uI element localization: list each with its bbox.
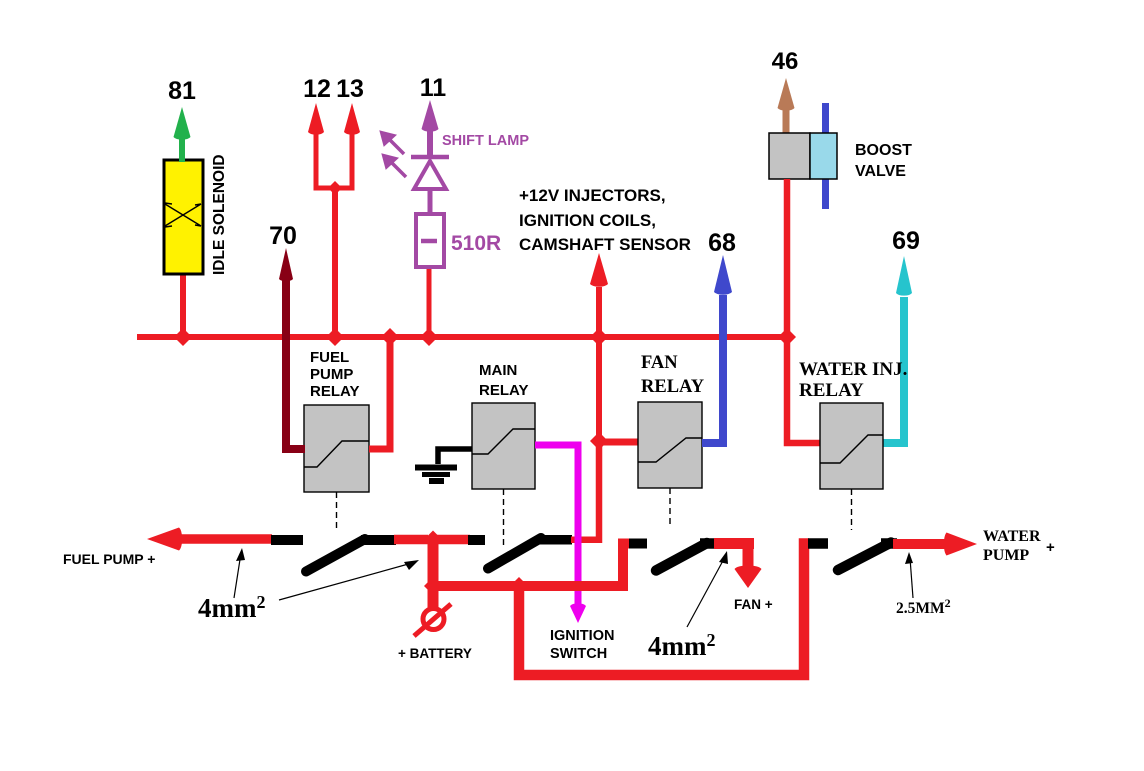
label IGNITION SWITCH — [550, 628, 614, 662]
ground symbol — [415, 468, 457, 482]
switch S1 movable arm (fuel pump) — [306, 539, 365, 572]
terminal arrow 70 (dark red) — [279, 248, 293, 281]
svg-text:12: 12 — [303, 75, 331, 103]
svg-text:11: 11 — [420, 74, 447, 102]
terminal arrow +12V (red) — [590, 253, 608, 287]
svg-text:WATER INJ.: WATER INJ. — [799, 359, 907, 380]
label +12V INJECTORS — [519, 186, 691, 254]
svg-text:FAN +: FAN + — [734, 597, 773, 612]
relay K1 contact symbol — [304, 441, 369, 467]
node: fork junction — [328, 181, 342, 195]
relay K2 main — [472, 403, 535, 489]
svg-text:PUMP: PUMP — [983, 547, 1029, 564]
switch S1 pivot cap — [361, 535, 396, 545]
svg-text:RELAY: RELAY — [799, 380, 864, 401]
terminal arrow 11 (purple) — [422, 100, 439, 158]
svg-text:RELAY: RELAY — [479, 382, 528, 399]
switch S3 movable arm (fan) — [656, 543, 707, 571]
svg-text:69: 69 — [892, 227, 920, 255]
node: tee to lower run — [510, 577, 528, 595]
relay K3 fan — [638, 402, 702, 488]
svg-text:RELAY: RELAY — [310, 383, 359, 400]
wire: fork feed 12/13 — [314, 134, 355, 188]
svg-text:+: + — [1046, 539, 1055, 556]
annotation arrow to battery riser — [279, 560, 419, 600]
wire: water pump + output lead — [893, 539, 950, 549]
label BOOST VALVE — [855, 142, 912, 180]
relay K4 contact symbol — [820, 435, 883, 463]
relay K1 fuel pump — [304, 405, 369, 492]
relay K2 contact symbol — [472, 429, 535, 454]
terminal arrow FUEL PUMP + (red, left) — [147, 528, 182, 551]
svg-text:4mm2: 4mm2 — [648, 630, 715, 661]
terminal arrow ignition switch (magenta, down) — [570, 603, 586, 623]
label FUEL PUMP RELAY — [310, 349, 359, 400]
svg-text:+12V INJECTORS,: +12V INJECTORS, — [519, 186, 666, 205]
node: bus junction fuel pump relay — [381, 328, 399, 346]
wire: fan + output lead — [714, 540, 754, 568]
relay K3 actuating link (dashed) — [669, 488, 671, 527]
svg-text:BOOST: BOOST — [855, 142, 912, 159]
svg-text:PUMP: PUMP — [310, 366, 353, 383]
wire: boost valve feed / water relay coil feed — [787, 179, 820, 443]
wire: battery feed to S2 — [436, 535, 470, 545]
relay K4 actuating link (dashed) — [851, 489, 853, 530]
annotation arrow to water pump lead — [905, 552, 913, 598]
svg-text:RELAY: RELAY — [641, 377, 705, 397]
switch S4 fixed contact (water) — [808, 538, 828, 549]
node: bus junction 12/13 — [326, 328, 344, 346]
battery symbol — [414, 604, 451, 636]
svg-text:IGNITION COILS,: IGNITION COILS, — [519, 211, 656, 230]
wire: battery feed to S1 — [394, 535, 428, 545]
wire: fan relay coil feed — [597, 439, 638, 446]
switch S1 fixed contact (fuel pump) — [271, 535, 303, 545]
LED emission arrows — [380, 131, 406, 177]
label WATER INJ. RELAY — [799, 359, 907, 401]
LED shift lamp — [411, 157, 449, 215]
label WATER PUMP + — [983, 528, 1041, 564]
switch S2 fixed contact (main) — [468, 535, 485, 545]
resistor 510R — [416, 214, 444, 267]
wire: idle solenoid feed from bus — [180, 268, 186, 340]
annotation arrow to fan switch arm — [687, 551, 728, 627]
switch S3 fixed contact (fan) — [629, 539, 647, 549]
svg-text:510R: 510R — [451, 232, 501, 255]
node: bus junction idle solenoid — [174, 328, 192, 346]
wire: main relay output riser to bus — [596, 337, 602, 441]
wire: battery feed to fan switch — [433, 544, 629, 587]
annotation arrow to fuel pump lead — [234, 548, 245, 598]
terminal arrow FAN + (red, down) — [735, 565, 762, 588]
node: bus junction shift lamp — [420, 328, 438, 346]
wire: main relay switch output riser — [571, 441, 599, 540]
terminal arrow 12 (red) — [308, 103, 324, 135]
node: battery tee junction — [424, 577, 442, 595]
svg-text:CAMSHAFT SENSOR: CAMSHAFT SENSOR — [519, 235, 691, 254]
idle solenoid valve symbol — [165, 203, 201, 227]
svg-text:WATER: WATER — [983, 528, 1041, 545]
svg-text:+ BATTERY: + BATTERY — [398, 646, 472, 661]
relay K1 actuating link (dashed) — [336, 492, 338, 530]
svg-text:FAN: FAN — [641, 353, 678, 373]
svg-text:FUEL PUMP +: FUEL PUMP + — [63, 551, 155, 567]
wire: ignition switch lead (magenta) — [535, 445, 578, 606]
terminal arrow 68 (blue) — [714, 255, 732, 295]
svg-text:68: 68 — [708, 229, 736, 257]
wire: battery lower run to water switch — [519, 544, 809, 676]
switch S2 pivot cap — [537, 535, 572, 545]
node: bus junction boost valve — [778, 328, 796, 346]
svg-text:FUEL: FUEL — [310, 349, 349, 366]
label MAIN RELAY — [479, 362, 528, 399]
label FAN RELAY — [641, 353, 705, 397]
relay K3 contact symbol — [638, 438, 702, 462]
svg-text:4mm2: 4mm2 — [198, 592, 265, 623]
switch S4 movable arm (water) — [838, 543, 891, 571]
svg-text:SWITCH: SWITCH — [550, 646, 607, 662]
wire: shift lamp branch (red below resistor) — [427, 266, 432, 340]
wire: battery riser — [428, 540, 439, 610]
svg-text:81: 81 — [168, 77, 196, 105]
terminal arrow 13 (red) — [344, 103, 360, 135]
boost valve solenoid body — [769, 133, 810, 179]
wire: water relay output 69 (cyan) — [883, 297, 904, 443]
terminal arrow 81 (green) — [174, 107, 191, 162]
svg-text:IDLE SOLENOID: IDLE SOLENOID — [211, 154, 228, 275]
wire: main switched +12V bus — [137, 334, 789, 340]
wire: +12V injectors branch above bus — [596, 287, 602, 340]
wire: fan relay output 68 (blue) — [702, 295, 723, 443]
terminal arrow 69 (cyan) — [896, 256, 912, 296]
svg-text:VALVE: VALVE — [855, 163, 906, 180]
terminal arrow 46 (brown) — [778, 78, 795, 135]
wire: fuel pump relay coil 70 (dark red) — [286, 280, 305, 449]
wire: fuel pump relay output to bus — [369, 340, 390, 449]
svg-text:46: 46 — [772, 48, 799, 75]
relay K4 water injection — [820, 403, 883, 489]
switch S4 pivot cap — [881, 538, 897, 549]
boost valve port body — [810, 133, 837, 179]
svg-text:2.5MM2: 2.5MM2 — [896, 596, 951, 617]
wire: fuel pump + output lead — [178, 534, 272, 544]
svg-text:13: 13 — [336, 75, 364, 103]
node: battery junction at switch row — [424, 531, 442, 549]
idle solenoid body — [164, 160, 203, 274]
relay K2 actuating link (dashed) — [503, 489, 505, 549]
node: junction fan relay coil tap — [590, 432, 608, 450]
switch S2 movable arm (main) — [488, 538, 541, 569]
wire: boost valve vacuum line (blue) — [822, 103, 829, 209]
wire: main relay coil ground lead — [438, 449, 472, 464]
svg-text:SHIFT LAMP: SHIFT LAMP — [442, 133, 529, 149]
svg-text:70: 70 — [269, 222, 297, 250]
node: bus junction main relay output — [590, 328, 608, 346]
svg-text:MAIN: MAIN — [479, 362, 517, 379]
terminal arrow WATER PUMP + (red, right) — [944, 533, 977, 556]
svg-text:IGNITION: IGNITION — [550, 628, 614, 644]
switch S3 pivot cap — [700, 538, 718, 549]
